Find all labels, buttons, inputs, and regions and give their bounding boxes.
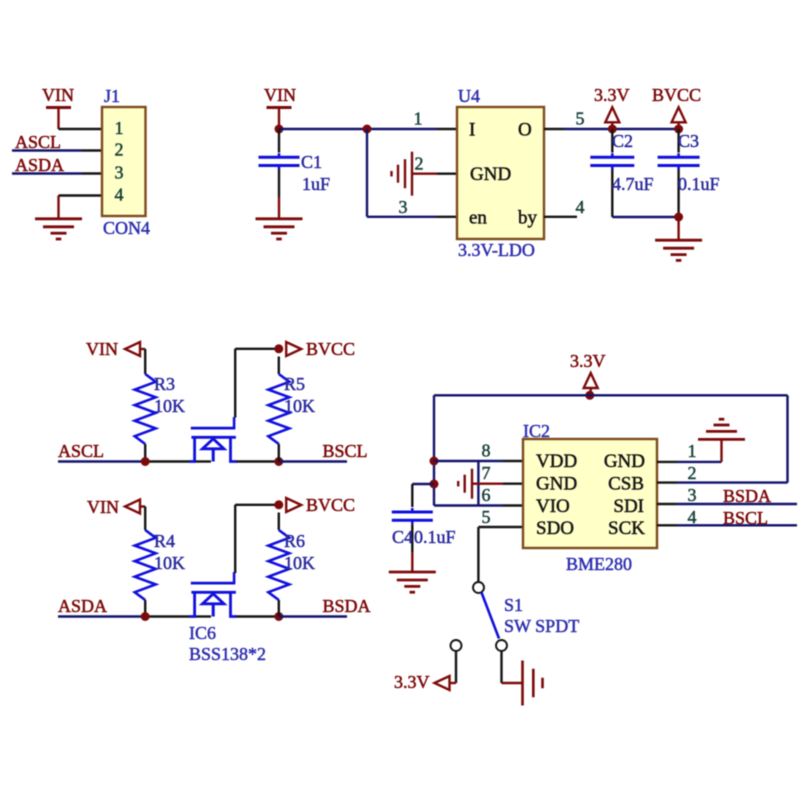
svg-text:VIO: VIO: [536, 496, 570, 517]
wire right throw down: [500, 651, 502, 683]
svg-text:VIN: VIN: [86, 339, 118, 359]
svg-text:IC2: IC2: [523, 421, 550, 441]
svg-text:C3: C3: [678, 131, 699, 151]
svg-text:BSCL: BSCL: [323, 441, 368, 461]
svg-text:BVCC: BVCC: [306, 495, 355, 515]
wire Q drain to R5: [237, 460, 279, 462]
svg-text:4: 4: [688, 507, 697, 527]
svg-text:IC6: IC6: [189, 623, 216, 643]
wire pin 1 row: [59, 128, 103, 130]
svg-text:GND: GND: [470, 164, 511, 185]
ground bars (S1): [521, 661, 524, 706]
lead C3 bottom: [677, 170, 679, 218]
svg-text:0.1uF: 0.1uF: [678, 174, 720, 194]
junction BVCC (R5): [274, 344, 283, 353]
lead R4 top: [144, 507, 146, 531]
connector J1 body: [102, 107, 146, 216]
wire gate to BVCC: [235, 348, 279, 350]
lead R3 bottom: [144, 444, 146, 462]
svg-text:4: 4: [576, 197, 585, 217]
svg-text:by: by: [518, 208, 538, 229]
lead C4 bottom: [411, 524, 413, 552]
power arrow BVCC (R6): [286, 498, 301, 512]
svg-text:2: 2: [115, 140, 124, 160]
arrow tail VIN R3: [140, 348, 145, 350]
pin 4 stub: [657, 524, 677, 526]
wire ground to pin 2: [412, 172, 437, 174]
wire to ground (S1): [502, 682, 522, 684]
arrow tail VIN R4: [140, 505, 145, 507]
wire to ground (J1): [57, 196, 59, 218]
wire ASCL to Q source: [145, 460, 190, 462]
svg-text:3.3V-LDO: 3.3V-LDO: [458, 240, 535, 260]
pin 8 stub: [503, 460, 523, 462]
svg-text:3.3V: 3.3V: [594, 85, 630, 105]
svg-text:VDD: VDD: [536, 451, 577, 472]
svg-text:C2: C2: [612, 131, 633, 151]
wire 3.3V top: [434, 394, 788, 396]
capacitor C2: [590, 156, 634, 159]
pin 3 stub: [82, 172, 102, 174]
pin 6 stub: [503, 504, 523, 506]
svg-text:GND: GND: [604, 451, 645, 472]
power arrow 3.3V (S1): [435, 676, 450, 690]
svg-text:ASDA: ASDA: [58, 596, 107, 616]
wire C4 to ground: [411, 552, 413, 571]
svg-text:7: 7: [482, 463, 491, 483]
svg-text:S1: S1: [504, 595, 523, 615]
wire up to ground (pin1): [720, 441, 722, 462]
junction R3/ASCL: [141, 457, 150, 466]
pin 2 stub: [82, 149, 102, 151]
svg-text:R3: R3: [154, 374, 175, 394]
svg-text:BVCC: BVCC: [306, 339, 355, 359]
resistor R5: [268, 374, 289, 444]
svg-text:4.7uF: 4.7uF: [612, 174, 654, 194]
ground (C4): [389, 571, 436, 574]
pin 3 stub: [657, 503, 677, 505]
svg-text:2: 2: [415, 154, 424, 174]
junction R5/BSCL: [274, 457, 283, 466]
lead C1 top: [278, 129, 280, 153]
wire under mosfet: [196, 460, 211, 462]
svg-text:BSDA: BSDA: [323, 596, 371, 616]
wire VIN to pin 1: [279, 128, 437, 130]
junction 3.3V top wire: [585, 391, 594, 400]
lead C1 bottom: [278, 170, 280, 198]
svg-text:CON4: CON4: [103, 218, 150, 238]
pin 4 stub U4: [544, 216, 577, 218]
regulator U4 body: [457, 107, 544, 239]
pin 5 stub U4: [544, 128, 564, 130]
ground (J1): [35, 217, 82, 220]
svg-text:1: 1: [115, 118, 124, 138]
svg-text:ASCL: ASCL: [15, 132, 61, 152]
lead R6 top: [278, 513, 280, 531]
wire VIN down: [278, 108, 280, 130]
wire VIN to pin1: [57, 108, 59, 130]
capacitor C1: [259, 156, 300, 159]
ground (IC2 pin1): [698, 438, 745, 441]
svg-text:3: 3: [688, 485, 697, 505]
svg-text:VIN: VIN: [87, 497, 119, 517]
power arrow BVCC (R5): [286, 342, 301, 356]
lead R5 top: [278, 357, 280, 375]
switch common terminal: [473, 582, 484, 593]
wire C4 branch: [412, 483, 434, 485]
power bar VIN (U4): [267, 106, 292, 109]
svg-text:0.1uF: 0.1uF: [414, 527, 456, 547]
wire SDO down to switch: [477, 527, 479, 582]
wire BSDA right: [677, 503, 797, 505]
pin 3 stub U4: [437, 216, 457, 218]
wire gate to BVCC 2: [235, 504, 279, 506]
svg-text:BVCC: BVCC: [652, 85, 701, 105]
svg-text:5: 5: [576, 109, 585, 129]
power arrow BVCC (C3): [672, 107, 686, 122]
wire C2-C3 bottom: [612, 216, 678, 218]
resistor R4: [135, 530, 156, 600]
pin 1 stub: [657, 461, 677, 463]
sensor IC2 body: [523, 439, 657, 548]
pin 2 stub U4: [437, 172, 457, 174]
arrow stem 3.3V: [611, 122, 613, 129]
svg-text:J1: J1: [104, 86, 120, 106]
lead R3 top: [144, 349, 146, 374]
svg-text:1uF: 1uF: [302, 174, 330, 194]
power arrow 3.3V (IC2): [584, 373, 598, 388]
svg-text:10K: 10K: [284, 553, 315, 573]
pin 5 stub: [503, 526, 523, 528]
junction VIN/C1: [275, 125, 284, 134]
pin 7 stub: [503, 483, 523, 485]
lead C4 top: [411, 484, 413, 507]
wire gate riser: [234, 349, 236, 418]
junction to en: [363, 125, 372, 134]
lead C2 top: [611, 129, 613, 153]
resistor R3: [135, 374, 156, 444]
pin 2 stub: [657, 481, 677, 483]
wire vdd-vio link: [477, 461, 479, 506]
svg-text:10K: 10K: [154, 396, 185, 416]
svg-text:BSCL: BSCL: [723, 508, 768, 528]
svg-text:SDO: SDO: [536, 518, 574, 539]
mosfet Q (ASCL half of IC6): [189, 417, 237, 461]
svg-text:1: 1: [414, 109, 423, 129]
junction VDD: [430, 457, 439, 466]
capacitor C3: [658, 156, 700, 159]
wire O to caps: [564, 128, 679, 130]
svg-text:R6: R6: [284, 531, 305, 551]
ground (C1): [256, 217, 303, 220]
svg-text:en: en: [469, 208, 487, 229]
pin 1 stub U4: [437, 128, 457, 130]
wire Q drain to R6: [237, 615, 279, 617]
ground (C2 C3): [655, 239, 702, 242]
wire to ground (C3): [677, 217, 679, 239]
junction C3 ground: [674, 213, 683, 222]
svg-text:2: 2: [688, 463, 697, 483]
wire BSCL right: [677, 524, 797, 526]
wire to pin 6: [434, 504, 503, 506]
svg-text:R4: R4: [154, 531, 175, 551]
svg-text:4: 4: [115, 185, 124, 205]
svg-text:5: 5: [482, 507, 491, 527]
power arrow VIN (R4): [125, 500, 140, 514]
wire gate riser 2: [234, 505, 236, 573]
svg-text:6: 6: [482, 485, 491, 505]
svg-text:3.3V: 3.3V: [394, 672, 430, 692]
svg-text:VIN: VIN: [264, 85, 296, 105]
svg-text:BSS138*2: BSS138*2: [189, 644, 266, 664]
wire ASDA to Q source: [145, 615, 190, 617]
svg-text:U4: U4: [458, 86, 480, 106]
switch throw right terminal: [496, 640, 507, 651]
wire pin 1 to ground: [677, 461, 722, 463]
wire down to en: [366, 129, 368, 217]
svg-text:GND: GND: [536, 474, 577, 495]
junction C2: [608, 125, 617, 134]
lead R4 bottom: [144, 600, 146, 617]
svg-text:10K: 10K: [154, 553, 185, 573]
svg-text:CSB: CSB: [608, 474, 644, 495]
svg-text:BME280: BME280: [566, 554, 632, 574]
wire pin 2 right: [677, 481, 788, 483]
svg-text:3: 3: [115, 163, 124, 183]
svg-text:BSDA: BSDA: [723, 486, 771, 506]
junction R4/ASDA: [141, 612, 150, 621]
wire ASDA: [12, 172, 82, 174]
ground bars (U4 pin2): [411, 152, 413, 196]
svg-text:3: 3: [399, 197, 408, 217]
wire ASCL left: [58, 460, 145, 462]
wire BSCL: [279, 460, 347, 462]
lead R6 bottom: [278, 600, 280, 617]
svg-text:ASCL: ASCL: [58, 441, 104, 461]
power arrow 3.3V (C2): [605, 107, 619, 122]
wire ASDA left: [58, 615, 145, 617]
wire C1 to ground: [278, 197, 280, 218]
junction BVCC (R6): [274, 500, 283, 509]
arrow stem 3.3V IC2: [590, 388, 592, 395]
svg-text:3.3V: 3.3V: [570, 351, 606, 371]
wire 3.3V right riser: [786, 395, 788, 482]
ground bars (IC2 pin7): [471, 469, 473, 499]
wire to 3.3V arrow: [448, 682, 457, 684]
svg-text:SCK: SCK: [608, 518, 645, 539]
svg-text:8: 8: [482, 441, 491, 461]
junction R6/BSDA: [274, 612, 283, 621]
svg-text:ASDA: ASDA: [15, 155, 64, 175]
resistor R6: [268, 530, 289, 600]
junction C3: [674, 125, 683, 134]
power bar VIN (J1): [46, 106, 71, 109]
power arrow VIN (R3): [125, 342, 140, 356]
svg-text:R5: R5: [284, 374, 305, 394]
svg-text:SDI: SDI: [613, 496, 644, 517]
svg-text:1: 1: [688, 441, 697, 461]
svg-text:C1: C1: [301, 152, 322, 172]
wire left throw down: [455, 651, 457, 683]
wire under mosfet 2: [196, 615, 211, 617]
wire ground to pin 7: [472, 483, 503, 485]
wire 3.3V left riser: [433, 395, 435, 505]
svg-text:I: I: [469, 120, 475, 141]
wire to pin 3: [367, 216, 437, 218]
svg-text:SW SPDT: SW SPDT: [504, 616, 579, 636]
lead C2 bottom: [611, 170, 613, 218]
lead C3 top: [677, 129, 679, 153]
svg-text:C4: C4: [392, 527, 413, 547]
switch throw left terminal: [451, 640, 462, 651]
mosfet Q (ASDA half of IC6): [189, 572, 237, 616]
svg-text:O: O: [518, 120, 532, 141]
wire ASCL: [12, 149, 82, 151]
lead R5 bottom: [278, 444, 280, 462]
switch blade: [482, 593, 500, 639]
wire to pin 8: [434, 460, 503, 462]
arrow stem BVCC: [677, 122, 679, 129]
wire BSDA: [279, 615, 347, 617]
svg-text:10K: 10K: [284, 396, 315, 416]
junction C4: [430, 480, 439, 489]
wire pin 4 row: [59, 194, 103, 196]
capacitor C4: [392, 511, 433, 514]
svg-text:VIN: VIN: [42, 85, 74, 105]
wire to pin 5: [478, 526, 503, 528]
